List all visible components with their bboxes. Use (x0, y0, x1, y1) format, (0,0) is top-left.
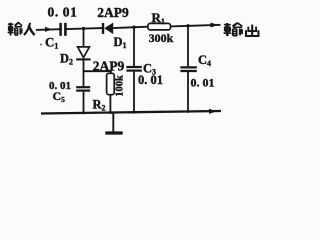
capacitor C5 (0.01) plates (76, 86, 90, 88)
resistor R2 (box, 100k) (107, 73, 115, 94)
node: rail junction at C5 branch (82, 112, 85, 115)
diode D2 (2AP9), outlined triangle pointing down, cathode bar below (78, 47, 90, 58)
svg-text:0. 01: 0. 01 (191, 76, 215, 90)
node: rail junction at C3 branch (133, 111, 136, 114)
ground (112, 113, 114, 132)
wire: D2 to T junction (83, 60, 85, 71)
svg-text:D1: D1 (114, 35, 127, 50)
capacitor C1 (0.01) plates (59, 23, 62, 36)
wire: R2 bottom to rail (109, 95, 111, 113)
wire: C1 to D1 (66, 28, 102, 29)
svg-text:0. 01: 0. 01 (48, 5, 78, 20)
wire: C4 branch from node C down (187, 26, 189, 67)
wire: T junction down to C5 (83, 70, 85, 86)
wire: R1 to output with arrow (171, 25, 221, 27)
wire: input lead with arrow (36, 28, 60, 31)
wire: bottom rail with arrow at right end (41, 111, 221, 114)
svg-text:R2: R2 (93, 98, 106, 113)
svg-text:C4: C4 (198, 53, 211, 68)
node A (junction of C1/D1/D2 branch) (82, 27, 85, 30)
resistor R1 (box) (148, 23, 171, 30)
svg-text:C1: C1 (45, 35, 58, 51)
svg-text:R1: R1 (152, 10, 165, 26)
wire: D1 to R1 (113, 27, 148, 28)
diode D1 (2AP9), cathode bar left, filled triangle pointing left (102, 23, 104, 34)
svg-text:2AP9: 2AP9 (97, 5, 129, 20)
wire: C3 down to rail (133, 72, 135, 113)
wire: D2 branch from node A down (83, 29, 85, 46)
svg-text:D2: D2 (60, 52, 73, 67)
wire: jog from T junction to R2 top (84, 71, 111, 73)
svg-text:300k: 300k (149, 31, 174, 45)
node: rail junction at R2 (109, 111, 112, 114)
capacitor C4 (0.01) plates (180, 66, 196, 68)
node: rail junction at C4 branch (187, 110, 190, 113)
svg-text:100k: 100k (114, 75, 125, 97)
wire: C3 branch from node B down (133, 27, 135, 66)
wire: C4 down to rail (187, 72, 189, 112)
label 输入 (input) (8, 22, 22, 35)
node B (junction of D1/R1/C3 branch) (132, 26, 135, 29)
svg-text:0. 01: 0. 01 (138, 73, 163, 87)
label 输出 (output) (224, 23, 242, 36)
node C (junction of R1/C4 branch/output) (186, 24, 189, 27)
wire: C5 down to ground rail (83, 92, 85, 114)
capacitor C3 (0.01) plates (126, 66, 141, 68)
